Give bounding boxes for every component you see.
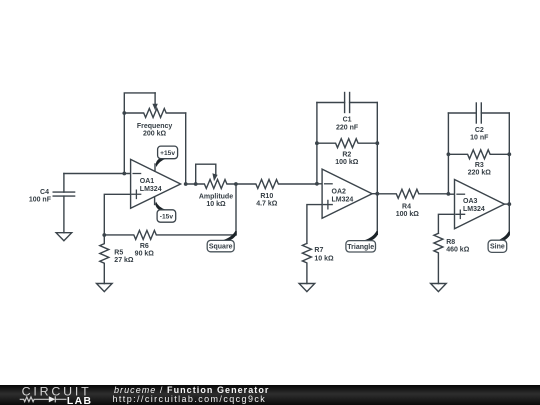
node: R2 left terminal: [315, 141, 319, 145]
node: R2 right terminal: [375, 141, 379, 145]
node: R5/R6 junction: [102, 233, 106, 237]
svg-text:90 kΩ: 90 kΩ: [135, 251, 155, 258]
wire: OA1 plus input branch: [104, 194, 130, 235]
op-amp OA3: [455, 180, 505, 229]
pin: OA3 minus: [457, 193, 465, 195]
svg-text:10 nF: 10 nF: [470, 135, 489, 142]
svg-text:OA3: OA3: [463, 198, 478, 205]
svg-text:200 kΩ: 200 kΩ: [143, 131, 167, 138]
wire: OA3 feedback left vertical: [447, 113, 449, 194]
capacitor C2: [448, 103, 509, 123]
wire: OA1 inverting input net: [64, 173, 131, 175]
resistor R3: [448, 150, 509, 159]
wire: triangle output vertical: [376, 194, 378, 235]
flag Square: [207, 231, 237, 252]
svg-text:100 kΩ: 100 kΩ: [335, 159, 359, 166]
ground (C4): [56, 233, 72, 241]
node: OA2 minus junction: [315, 182, 319, 186]
node: R3 right terminal: [507, 152, 511, 156]
resistor R5: [100, 235, 109, 284]
svg-text:C1: C1: [343, 117, 352, 124]
node: amplitude pot right terminal: [234, 182, 238, 186]
logo diode: [49, 396, 56, 402]
node: OA2 output junction: [375, 192, 379, 196]
wire: OA2 plus input branch: [307, 205, 322, 244]
svg-text:R5: R5: [114, 249, 123, 256]
node: amplitude pot left terminal: [194, 182, 198, 186]
svg-text:100 kΩ: 100 kΩ: [396, 211, 420, 218]
resistor R6: [104, 230, 236, 239]
footer bar: [0, 385, 540, 405]
svg-text:OA1: OA1: [140, 178, 155, 185]
wire: OA2 output: [372, 193, 377, 195]
svg-text:LAB: LAB: [67, 396, 93, 405]
svg-text:C4: C4: [40, 189, 49, 196]
svg-text:-15v: -15v: [160, 214, 174, 221]
svg-text:Sine: Sine: [490, 244, 505, 251]
ground (R8): [431, 284, 447, 292]
svg-text:Triangle: Triangle: [347, 244, 374, 251]
svg-text:Square: Square: [209, 243, 233, 250]
svg-text:10 kΩ: 10 kΩ: [314, 255, 334, 262]
ground (R7): [299, 284, 315, 292]
pin: OA3 plus: [456, 210, 465, 218]
svg-text:LM324: LM324: [140, 186, 162, 193]
potentiometer Frequency 200k (wiper arm): [152, 93, 157, 110]
op-amp OA2: [322, 169, 372, 218]
pin: OA2 minus: [325, 183, 333, 185]
svg-text:100 nF: 100 nF: [29, 196, 52, 203]
power +15v callout: [155, 146, 178, 171]
flag Sine: [488, 232, 510, 253]
resistor R4: [377, 189, 448, 198]
svg-text:27 kΩ: 27 kΩ: [114, 257, 134, 264]
wire: OA3 feedback right vertical: [508, 113, 510, 204]
svg-text:R2: R2: [342, 152, 351, 159]
svg-text:R7: R7: [314, 247, 323, 254]
logo circuit glyph: wire: [20, 397, 49, 402]
node: OA1 minus junction: [122, 172, 126, 176]
svg-text:LM324: LM324: [463, 206, 485, 213]
node: frequency pot left terminal: [122, 111, 126, 115]
potentiometer Amplitude 10k (wiper arm): [196, 164, 218, 184]
svg-text:R8: R8: [446, 239, 455, 246]
resistor R7: [302, 243, 311, 283]
wire: OA3 plus input branch: [438, 214, 454, 233]
flag Triangle: [346, 231, 378, 252]
potentiometer Frequency 200k (body): [124, 109, 185, 118]
node: R3 left terminal: [447, 152, 451, 156]
svg-text:460 kΩ: 460 kΩ: [446, 247, 470, 254]
wire: square output vertical: [235, 184, 237, 235]
svg-text:Frequency: Frequency: [137, 123, 173, 130]
op-amp OA1: [131, 159, 181, 208]
wire: frequency pot left branch: [124, 93, 155, 174]
wire: OA2 feedback left vertical: [316, 103, 318, 184]
capacitor C4: [53, 174, 74, 233]
svg-text:+15v: +15v: [160, 150, 175, 157]
node: OA3 output junction: [507, 202, 511, 206]
pin: OA1 plus: [132, 190, 141, 198]
svg-text:R10: R10: [260, 193, 273, 200]
node: OA1 output junction: [184, 182, 188, 186]
pin: OA2 plus: [324, 200, 333, 208]
node: OA3 minus junction: [447, 192, 451, 196]
wire: OA3 minus stub: [448, 193, 454, 195]
svg-text:R3: R3: [475, 162, 484, 169]
svg-text:LM324: LM324: [332, 196, 354, 203]
pin: OA1 minus: [133, 173, 141, 175]
wire: OA2 feedback right vertical: [376, 103, 378, 194]
resistor R10: [236, 180, 317, 189]
power -15v callout: [155, 197, 176, 222]
svg-text:4.7 kΩ: 4.7 kΩ: [256, 200, 278, 207]
svg-text:10 kΩ: 10 kΩ: [206, 201, 226, 208]
resistor R2: [317, 139, 377, 148]
svg-text:http://circuitlab.com/cqcg9ck: http://circuitlab.com/cqcg9ck: [113, 394, 267, 404]
ground (R5): [97, 284, 113, 292]
potentiometer Amplitude 10k (body): [186, 180, 236, 189]
wire: OA3 output: [504, 203, 509, 205]
svg-text:R6: R6: [140, 243, 149, 250]
svg-text:Amplitude: Amplitude: [199, 194, 233, 201]
svg-text:R4: R4: [402, 203, 411, 210]
wire: frequency pot right branch to OA1 output: [185, 113, 187, 184]
wire: OA2 minus to triangle: [317, 183, 322, 185]
wire: sine output vertical: [508, 204, 510, 234]
svg-text:C2: C2: [475, 127, 484, 134]
svg-text:220 nF: 220 nF: [336, 124, 359, 131]
resistor R8: [434, 233, 443, 283]
svg-text:220 kΩ: 220 kΩ: [468, 170, 492, 177]
svg-text:OA2: OA2: [332, 188, 347, 195]
capacitor C1: [317, 93, 377, 113]
